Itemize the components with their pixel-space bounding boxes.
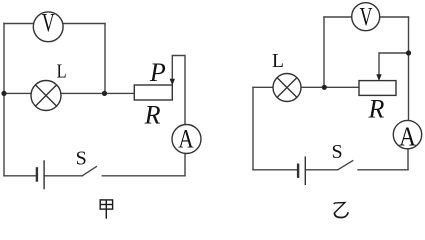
ammeter A circle [393, 120, 421, 148]
voltmeter V circle [33, 12, 63, 42]
wire voltmeter loop right vertical [104, 24, 106, 94]
wire slider riser to ammeter branch [172, 56, 185, 176]
wire battery to switch pivot [305, 169, 337, 171]
wire battery to switch pivot [44, 175, 82, 177]
svg-text:P: P [149, 58, 166, 87]
battery short plate [36, 167, 38, 182]
slider P arrowhead [170, 79, 175, 86]
switch S blade [338, 160, 354, 170]
wire top of voltmeter loop [324, 16, 409, 18]
wire lamp row to rheostat [4, 92, 134, 94]
wire left vertical main [3, 24, 5, 176]
wire voltmeter loop left vertical [323, 17, 325, 87]
node lamp/voltmeter junction [102, 91, 107, 96]
slider arrowhead [376, 74, 381, 81]
switch S blade [82, 166, 97, 176]
svg-text:L: L [57, 60, 67, 82]
wire bottom left of battery [253, 169, 298, 171]
caption yi [334, 203, 349, 218]
svg-text:R: R [368, 95, 385, 124]
lamp L cross [277, 78, 297, 98]
node slider on right vertical [406, 50, 411, 55]
battery long plate [304, 156, 306, 185]
svg-text:S: S [332, 141, 343, 163]
voltmeter V circle [352, 3, 380, 31]
svg-text:R: R [144, 100, 161, 129]
wire switch contact to right corner [358, 169, 408, 171]
svg-text:A: A [399, 123, 416, 152]
wire bottom left of battery [4, 175, 37, 177]
rheostat R body [359, 81, 396, 96]
battery short plate [297, 164, 299, 178]
lamp L cross [35, 85, 56, 106]
wire left outer vertical [252, 87, 254, 170]
lamp L circle [273, 74, 301, 102]
wire right vertical above ammeter [408, 17, 410, 121]
rheostat R body [134, 85, 172, 100]
svg-text:V: V [360, 2, 373, 31]
wire top of voltmeter loop [4, 23, 105, 25]
lamp L circle [31, 81, 61, 111]
ammeter A circle [172, 125, 201, 154]
battery long plate [43, 160, 45, 189]
node lamp/voltmeter junction [322, 85, 327, 90]
wire right vertical below ammeter [407, 149, 409, 170]
wire slider link and riser [379, 53, 409, 76]
wire lamp row [253, 86, 359, 88]
svg-text:S: S [76, 147, 87, 169]
svg-text:L: L [272, 51, 284, 72]
node on left vertical at lamp row [1, 91, 6, 96]
caption jia [100, 200, 112, 219]
wire switch contact to right corner [102, 175, 185, 177]
svg-text:A: A [178, 126, 193, 154]
svg-text:V: V [42, 8, 55, 37]
